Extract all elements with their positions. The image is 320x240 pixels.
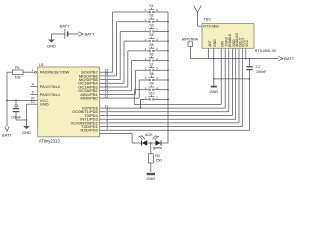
svg-text:2: 2 xyxy=(156,86,158,90)
svg-text:1: 1 xyxy=(145,18,147,22)
svg-text:VCC: VCC xyxy=(245,39,249,47)
svg-text:10k: 10k xyxy=(14,76,20,80)
svg-text:S5: S5 xyxy=(149,43,153,47)
svg-text:1: 1 xyxy=(32,68,34,72)
svg-text:S9: S9 xyxy=(149,82,153,86)
svg-text:R1: R1 xyxy=(15,66,20,70)
svg-text:ATtiny2313: ATtiny2313 xyxy=(39,138,61,143)
svg-text:2: 2 xyxy=(156,37,158,41)
svg-text:S6: S6 xyxy=(149,53,153,57)
svg-text:2: 2 xyxy=(156,96,158,100)
svg-text:GND: GND xyxy=(47,44,56,49)
svg-text:GND: GND xyxy=(213,39,217,47)
svg-text:100nF: 100nF xyxy=(11,115,22,119)
svg-text:TBC: TBC xyxy=(204,18,212,22)
svg-text:1: 1 xyxy=(145,47,147,51)
svg-text:S3: S3 xyxy=(149,23,153,27)
svg-text:BATT: BATT xyxy=(2,133,12,138)
svg-text:BATT: BATT xyxy=(60,24,70,29)
svg-text:ANT: ANT xyxy=(208,40,212,47)
svg-text:S1: S1 xyxy=(149,4,153,8)
svg-text:C1: C1 xyxy=(14,104,19,108)
svg-text:PA1/XTAL2: PA1/XTAL2 xyxy=(40,84,61,89)
svg-text:BATT: BATT xyxy=(85,32,95,37)
svg-text:C7: C7 xyxy=(256,65,261,69)
svg-text:100nF: 100nF xyxy=(256,70,267,74)
svg-text:2: 2 xyxy=(156,57,158,61)
svg-text:RTX-MID-3V: RTX-MID-3V xyxy=(255,49,277,53)
svg-text:1: 1 xyxy=(145,76,147,80)
svg-text:ACK: ACK xyxy=(145,133,153,137)
svg-text:5: 5 xyxy=(32,91,34,95)
svg-text:2: 2 xyxy=(156,76,158,80)
svg-text:RTX-MID: RTX-MID xyxy=(203,25,219,29)
svg-text:U1: U1 xyxy=(39,63,44,67)
svg-text:1: 1 xyxy=(145,37,147,41)
svg-text:2: 2 xyxy=(156,47,158,51)
svg-text:GND: GND xyxy=(40,102,49,107)
svg-text:4: 4 xyxy=(32,83,34,87)
svg-text:AIN0/PB0: AIN0/PB0 xyxy=(80,96,98,101)
svg-text:1: 1 xyxy=(145,66,147,70)
svg-text:1: 1 xyxy=(145,96,147,100)
svg-text:S4: S4 xyxy=(149,33,153,37)
svg-text:S7: S7 xyxy=(149,62,153,66)
svg-text:2: 2 xyxy=(156,66,158,70)
svg-text:RXD/PD0: RXD/PD0 xyxy=(80,128,98,133)
svg-text:2: 2 xyxy=(156,8,158,12)
svg-text:PA2/RESET/DW: PA2/RESET/DW xyxy=(40,70,70,75)
svg-text:10: 10 xyxy=(31,100,35,104)
svg-text:1: 1 xyxy=(145,86,147,90)
svg-text:GND: GND xyxy=(146,176,155,181)
svg-text:ANTENNA: ANTENNA xyxy=(182,38,199,42)
svg-text:S8: S8 xyxy=(149,72,153,76)
svg-text:R2: R2 xyxy=(155,154,160,158)
svg-text:2: 2 xyxy=(156,28,158,32)
svg-text:green: green xyxy=(153,146,162,150)
svg-text:750: 750 xyxy=(155,159,161,163)
svg-text:PA0/XTAL1: PA0/XTAL1 xyxy=(40,92,61,97)
svg-text:S10: S10 xyxy=(148,91,154,95)
svg-text:1: 1 xyxy=(145,28,147,32)
svg-text:S2: S2 xyxy=(149,14,153,18)
svg-text:1: 1 xyxy=(145,57,147,61)
svg-text:1: 1 xyxy=(145,8,147,12)
svg-text:2: 2 xyxy=(156,18,158,22)
svg-text:BATT: BATT xyxy=(284,56,294,61)
svg-text:GND: GND xyxy=(22,130,31,135)
svg-text:GND: GND xyxy=(209,89,218,94)
